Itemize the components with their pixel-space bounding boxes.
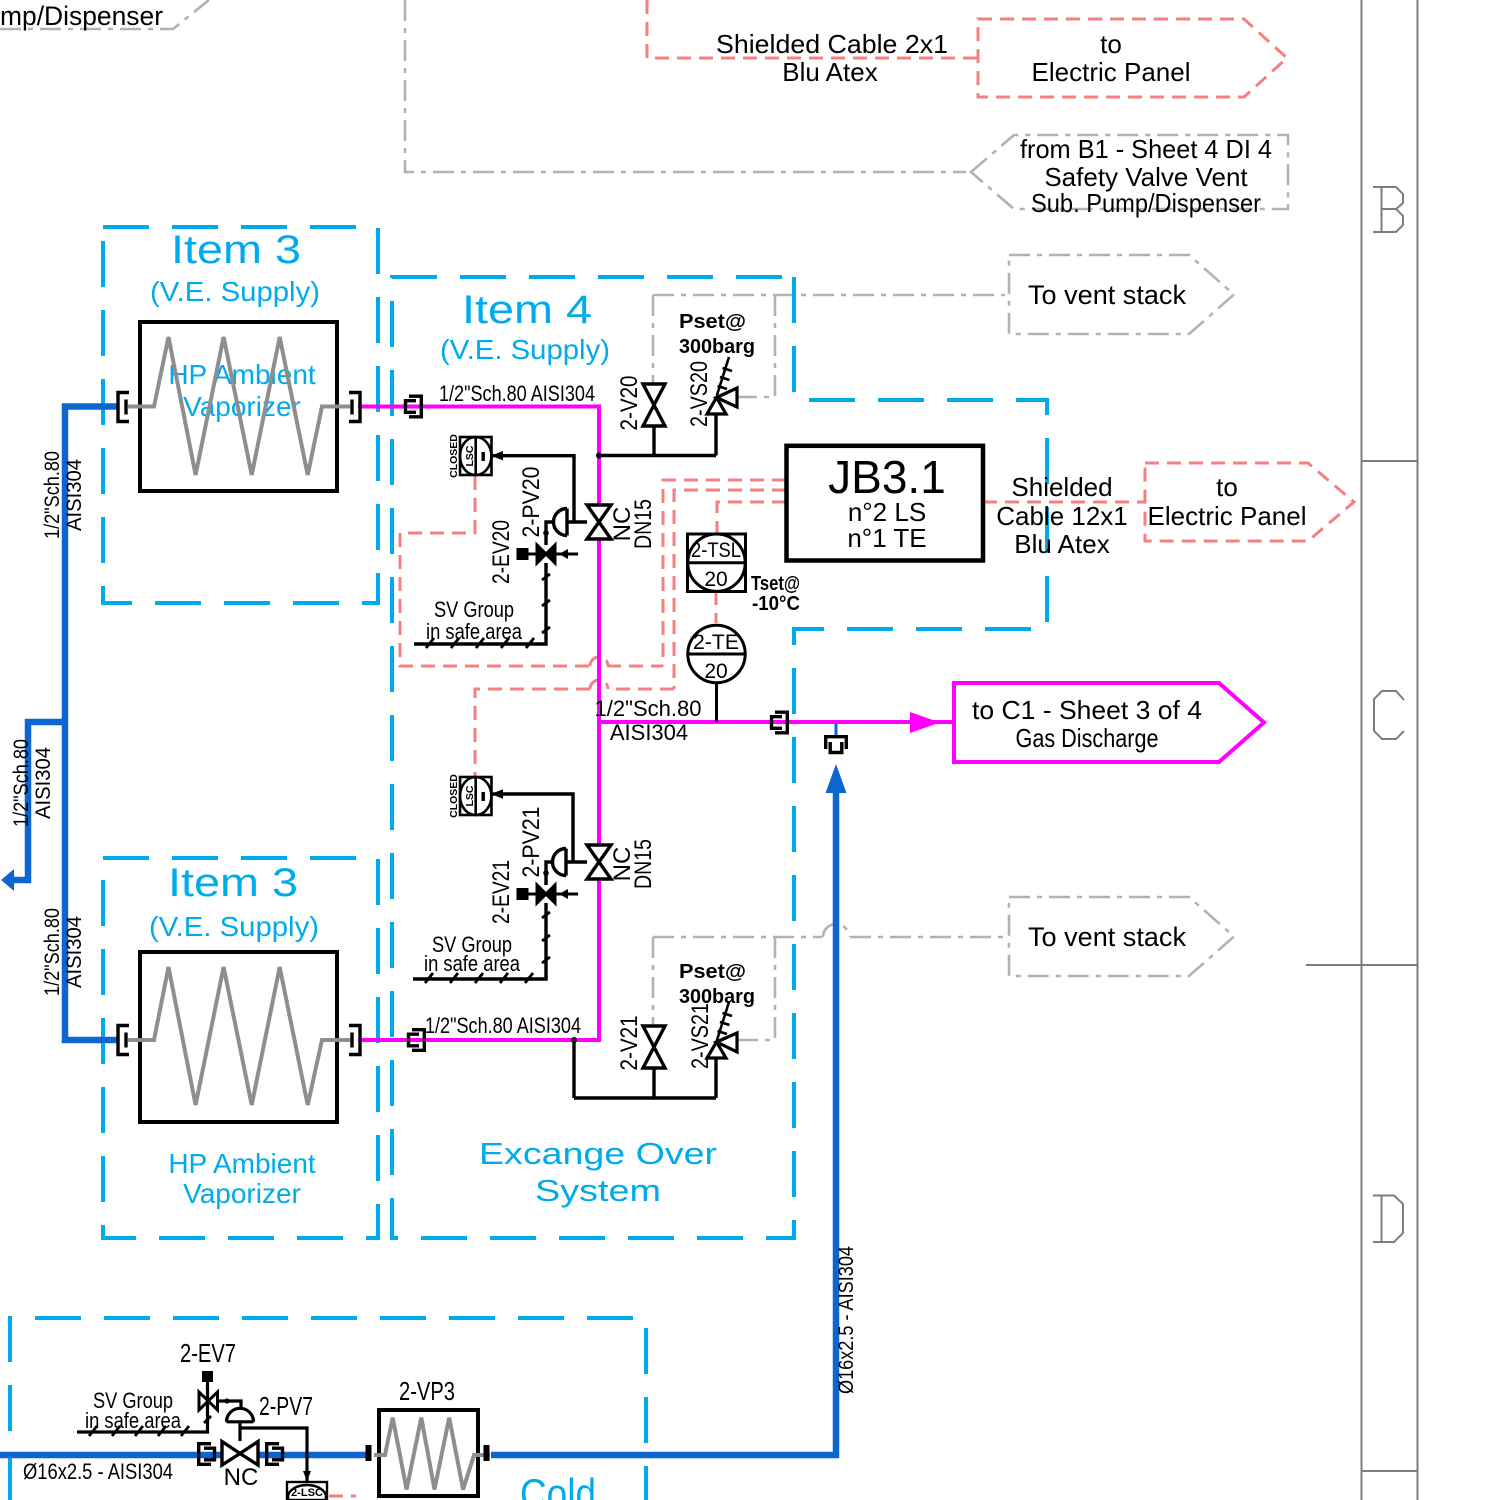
svg-text:from B1 - Sheet 4 DI 4: from B1 - Sheet 4 DI 4 (1020, 134, 1272, 164)
svg-text:2-PV7: 2-PV7 (259, 1391, 313, 1421)
svg-text:2-PV20: 2-PV20 (518, 467, 545, 538)
svg-text:Gas Discharge: Gas Discharge (1016, 723, 1159, 753)
svg-text:n°1 TE: n°1 TE (847, 523, 926, 553)
svg-text:2-EV21: 2-EV21 (488, 860, 515, 924)
svg-text:20: 20 (704, 660, 727, 683)
svg-text:1/2"Sch.80 AISI304: 1/2"Sch.80 AISI304 (425, 1013, 581, 1038)
svg-text:Ø16x2.5 - AISI304: Ø16x2.5 - AISI304 (835, 1246, 858, 1394)
svg-text:To vent stack: To vent stack (1028, 280, 1186, 310)
svg-text:Excange Over: Excange Over (479, 1136, 717, 1171)
svg-text:Cold: Cold (520, 1470, 596, 1500)
svg-text:Item 4: Item 4 (462, 288, 592, 332)
svg-text:Electric Panel: Electric Panel (1148, 501, 1307, 531)
svg-text:Vaporizer: Vaporizer (183, 1178, 301, 1209)
svg-text:2-LSC: 2-LSC (291, 1487, 323, 1499)
svg-text:NC: NC (224, 1464, 259, 1491)
svg-text:2-TSL: 2-TSL (691, 539, 741, 562)
svg-text:Sub. Pump/Dispenser: Sub. Pump/Dispenser (1031, 188, 1261, 218)
svg-text:2-EV20: 2-EV20 (488, 520, 515, 584)
svg-text:HP Ambient: HP Ambient (168, 359, 316, 390)
svg-text:Shielded Cable 2x1: Shielded Cable 2x1 (716, 29, 948, 59)
svg-text:DN15: DN15 (630, 839, 657, 889)
svg-text:Pset@: Pset@ (679, 960, 746, 983)
svg-text:JB3.1: JB3.1 (828, 451, 946, 503)
svg-text:to C1 - Sheet 3 of 4: to C1 - Sheet 3 of 4 (972, 695, 1202, 725)
svg-text:System: System (535, 1173, 661, 1208)
svg-text:Item 3: Item 3 (171, 228, 301, 272)
svg-text:(V.E. Supply): (V.E. Supply) (440, 334, 610, 365)
svg-text:2-EV7: 2-EV7 (180, 1338, 236, 1368)
svg-text:Cable 12x1: Cable 12x1 (996, 501, 1128, 531)
svg-text:DN15: DN15 (630, 499, 657, 549)
svg-text:-10°C: -10°C (752, 592, 800, 615)
svg-text:LSC: LSC (464, 785, 476, 806)
svg-text:AISI304: AISI304 (63, 916, 86, 988)
svg-text:AISI304: AISI304 (63, 459, 86, 531)
svg-text:CLOSED: CLOSED (448, 434, 460, 478)
svg-text:to: to (1100, 29, 1122, 59)
svg-text:2-VP3: 2-VP3 (399, 1376, 455, 1406)
svg-text:300barg: 300barg (679, 985, 755, 1008)
svg-text:Electric Panel: Electric Panel (1032, 57, 1191, 87)
svg-text:1/2"Sch.80: 1/2"Sch.80 (10, 739, 33, 827)
svg-text:Blu Atex: Blu Atex (1014, 529, 1109, 559)
svg-text:20: 20 (704, 568, 727, 591)
svg-text:LSC: LSC (464, 445, 476, 466)
svg-text:2-TE: 2-TE (693, 631, 739, 654)
svg-text:to: to (1216, 472, 1238, 502)
svg-text:1/2"Sch.80 AISI304: 1/2"Sch.80 AISI304 (439, 381, 595, 406)
svg-text:2-V20: 2-V20 (616, 376, 643, 431)
svg-text:2-V21: 2-V21 (616, 1016, 643, 1071)
svg-text:in safe area: in safe area (424, 951, 521, 976)
svg-text:Item 3: Item 3 (168, 861, 298, 905)
svg-text:Shielded: Shielded (1011, 472, 1112, 502)
svg-text:AISI304: AISI304 (32, 747, 55, 819)
svg-text:300barg: 300barg (679, 335, 755, 358)
svg-text:AISI304: AISI304 (610, 720, 688, 745)
svg-text:2-VS21: 2-VS21 (687, 1003, 714, 1069)
svg-text:1/2"Sch.80: 1/2"Sch.80 (41, 908, 64, 996)
svg-text:Ø16x2.5 - AISI304: Ø16x2.5 - AISI304 (23, 1459, 173, 1484)
svg-text:1/2"Sch.80: 1/2"Sch.80 (41, 451, 64, 539)
svg-text:CLOSED: CLOSED (448, 774, 460, 818)
svg-text:in safe area: in safe area (85, 1408, 182, 1433)
svg-text:in safe area: in safe area (426, 619, 523, 644)
svg-text:(V.E. Supply): (V.E. Supply) (149, 911, 319, 942)
svg-text:HP Ambient: HP Ambient (168, 1148, 316, 1179)
svg-text:2-VS20: 2-VS20 (686, 361, 713, 427)
svg-text:(V.E. Supply): (V.E. Supply) (150, 276, 320, 307)
svg-text:Blu Atex: Blu Atex (782, 57, 877, 87)
svg-text:mp/Dispenser: mp/Dispenser (0, 1, 163, 31)
svg-text:2-PV21: 2-PV21 (518, 807, 545, 878)
svg-text:To vent stack: To vent stack (1028, 922, 1186, 952)
svg-text:Pset@: Pset@ (679, 310, 746, 333)
svg-text:1/2"Sch.80: 1/2"Sch.80 (595, 696, 702, 721)
